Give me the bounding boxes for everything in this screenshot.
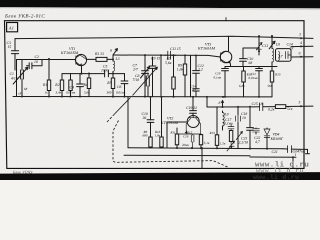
resistor R13 xyxy=(215,135,218,146)
resistor R19 xyxy=(275,105,285,109)
capacitor C4 xyxy=(77,84,84,87)
wire mid y155 xyxy=(124,154,250,157)
wire C18 branch xyxy=(237,107,239,149)
wire C10 branch xyxy=(243,48,259,67)
wire rail y55 to VT3 base xyxy=(113,55,221,57)
junction dots xyxy=(48,58,50,60)
capacitor C21 series xyxy=(288,146,292,153)
dashed tuning gang link xyxy=(107,114,115,122)
top scan bar xyxy=(0,0,320,8)
transistor VT3 xyxy=(220,51,232,63)
resistor R1 xyxy=(47,80,50,91)
wire x250 branch xyxy=(249,107,251,149)
resistor R4 xyxy=(87,78,90,89)
resistor R3 xyxy=(96,57,107,61)
capacitor C8 variable xyxy=(146,67,157,86)
wire L4 column xyxy=(160,55,162,96)
capacitor C5 xyxy=(105,70,109,77)
inductor L7 coil xyxy=(278,52,280,61)
wire C22 branch xyxy=(255,128,257,134)
capacitor C10het xyxy=(147,120,154,123)
wire L8 branch xyxy=(271,36,273,66)
wire ground rail xyxy=(13,96,272,98)
wire R12 branch xyxy=(200,134,202,148)
wire C12 branch xyxy=(195,56,197,97)
wire x128 vertical xyxy=(127,97,129,148)
capacitor C14-47 xyxy=(193,89,199,91)
wire input C3 branch xyxy=(14,39,16,70)
wire x207 gnd to pin5 rail xyxy=(206,97,208,107)
capacitor C12 xyxy=(193,71,200,74)
capacitor C16e xyxy=(222,69,229,71)
wire base VT1 xyxy=(17,59,76,61)
resistor R16 xyxy=(160,137,163,147)
resistor R9 xyxy=(183,64,186,75)
wire pin4 xyxy=(291,45,313,47)
wire emitter row y66.5 xyxy=(225,66,277,68)
resistor R12 xyxy=(199,135,202,145)
trimmer C13 xyxy=(256,42,262,50)
resistor R8 xyxy=(149,137,152,147)
wire x190 column xyxy=(190,55,192,96)
resistor R2 xyxy=(60,80,63,91)
varicap VD4 xyxy=(264,129,270,137)
wire C9 branch xyxy=(152,57,154,97)
capacitor C15 series pin5 xyxy=(260,103,263,111)
trimmer C23 xyxy=(236,131,242,139)
wire R5 branch xyxy=(112,74,114,97)
wire pin5 line xyxy=(207,105,313,108)
resistor R14 xyxy=(229,131,232,142)
inductor L8 coil xyxy=(272,49,274,63)
wire supply rail top xyxy=(15,36,313,38)
capacitor C9 xyxy=(149,66,156,68)
wire R1 branch xyxy=(48,59,50,97)
resistor R10 xyxy=(242,71,245,82)
wire R2 branch xyxy=(61,74,63,97)
capacitor C16 xyxy=(177,134,201,148)
wire VT2 emitter stub xyxy=(200,134,202,136)
wire tank x259 xyxy=(258,36,260,55)
resistor R5 xyxy=(111,78,114,89)
capacitor C2 series xyxy=(29,63,32,69)
capacitor C19 xyxy=(190,111,197,114)
tick above frame xyxy=(225,17,227,21)
wire C10het R8 branch xyxy=(150,97,152,148)
transistor VT2 xyxy=(187,116,199,128)
dashed shield enclosure xyxy=(113,121,229,168)
wire VD4 branch xyxy=(266,128,268,149)
wire R13 branch xyxy=(216,107,218,148)
wire C1 branch xyxy=(21,60,23,97)
pin 8 stub with arrow xyxy=(222,101,224,108)
wire R7 branch xyxy=(173,55,175,96)
wire collector VT1 to R3 xyxy=(87,55,114,59)
wire L9 coil branch xyxy=(222,111,224,130)
wire pin1 line with C21 xyxy=(283,149,310,154)
watermark xyxy=(253,161,309,181)
wire C16e branch xyxy=(224,67,226,97)
frame of block A1 xyxy=(5,21,305,169)
inductor L3 xyxy=(113,61,115,71)
wire C2 link xyxy=(27,60,43,66)
capacitor C11 series xyxy=(164,51,176,59)
paper grain xyxy=(0,7,320,172)
wire VT1 emitter xyxy=(81,66,83,74)
wire VT3 emitter xyxy=(229,62,232,67)
wire left input branch xyxy=(16,60,18,97)
wire L3 branch xyxy=(112,59,114,73)
capacitor C10 xyxy=(240,59,247,62)
wire C6 branch xyxy=(124,74,126,97)
wire R16 branch xyxy=(161,97,163,148)
tuning link solid part xyxy=(115,67,158,114)
A1 sub-box xyxy=(7,23,18,32)
wire C21e branch xyxy=(258,67,260,97)
capacitor C1 variable xyxy=(13,67,28,84)
wire R4 branch xyxy=(88,74,90,97)
svg-text:www.li d.ru: www.li d.ru xyxy=(253,174,299,180)
resistor R11 xyxy=(175,134,178,145)
wire x167 VT2 base branch xyxy=(167,122,186,148)
wire heterodyne bus y148 xyxy=(128,148,283,149)
transistor VT1 xyxy=(75,54,86,65)
wire emitter row y73.5 xyxy=(62,73,125,75)
trimmer L8 xyxy=(269,41,275,49)
capacitor C6 xyxy=(121,81,128,84)
bottom scan bar xyxy=(0,172,320,180)
test point arrow B xyxy=(113,49,118,55)
wire pin9 xyxy=(291,56,313,58)
resistor R15 xyxy=(270,71,273,82)
capacitor C7 trimmer xyxy=(141,67,150,78)
wire C19 branch xyxy=(192,97,194,116)
wire R10 branch xyxy=(243,67,245,97)
inductor L9 coil xyxy=(223,113,225,127)
wire R6 branch xyxy=(70,74,72,97)
capacitor C21e xyxy=(256,69,263,71)
wire lower pin line y157 xyxy=(250,157,296,168)
capacitor near L9 xyxy=(228,125,234,149)
wire VT3 collector xyxy=(228,36,230,51)
wire C7 trimmer branch xyxy=(144,55,146,96)
resistor R6 xyxy=(69,80,72,91)
shield box L7 xyxy=(276,49,292,62)
wire R11 branch xyxy=(176,128,178,148)
wire C4 branch xyxy=(79,74,81,97)
trimmer C20 xyxy=(227,141,235,151)
resistor R7 xyxy=(172,77,175,89)
capacitor C22 xyxy=(253,128,260,132)
wire R9 branch xyxy=(184,55,186,96)
capacitor C3 xyxy=(11,51,18,54)
wire C8 branch xyxy=(147,73,149,97)
capacitor C18 xyxy=(235,115,240,123)
capacitor x250 xyxy=(247,128,254,131)
wire R15 branch xyxy=(271,67,273,97)
wire vertical x202 to frame bottom xyxy=(201,148,203,168)
capacitor C14 xyxy=(286,52,291,59)
